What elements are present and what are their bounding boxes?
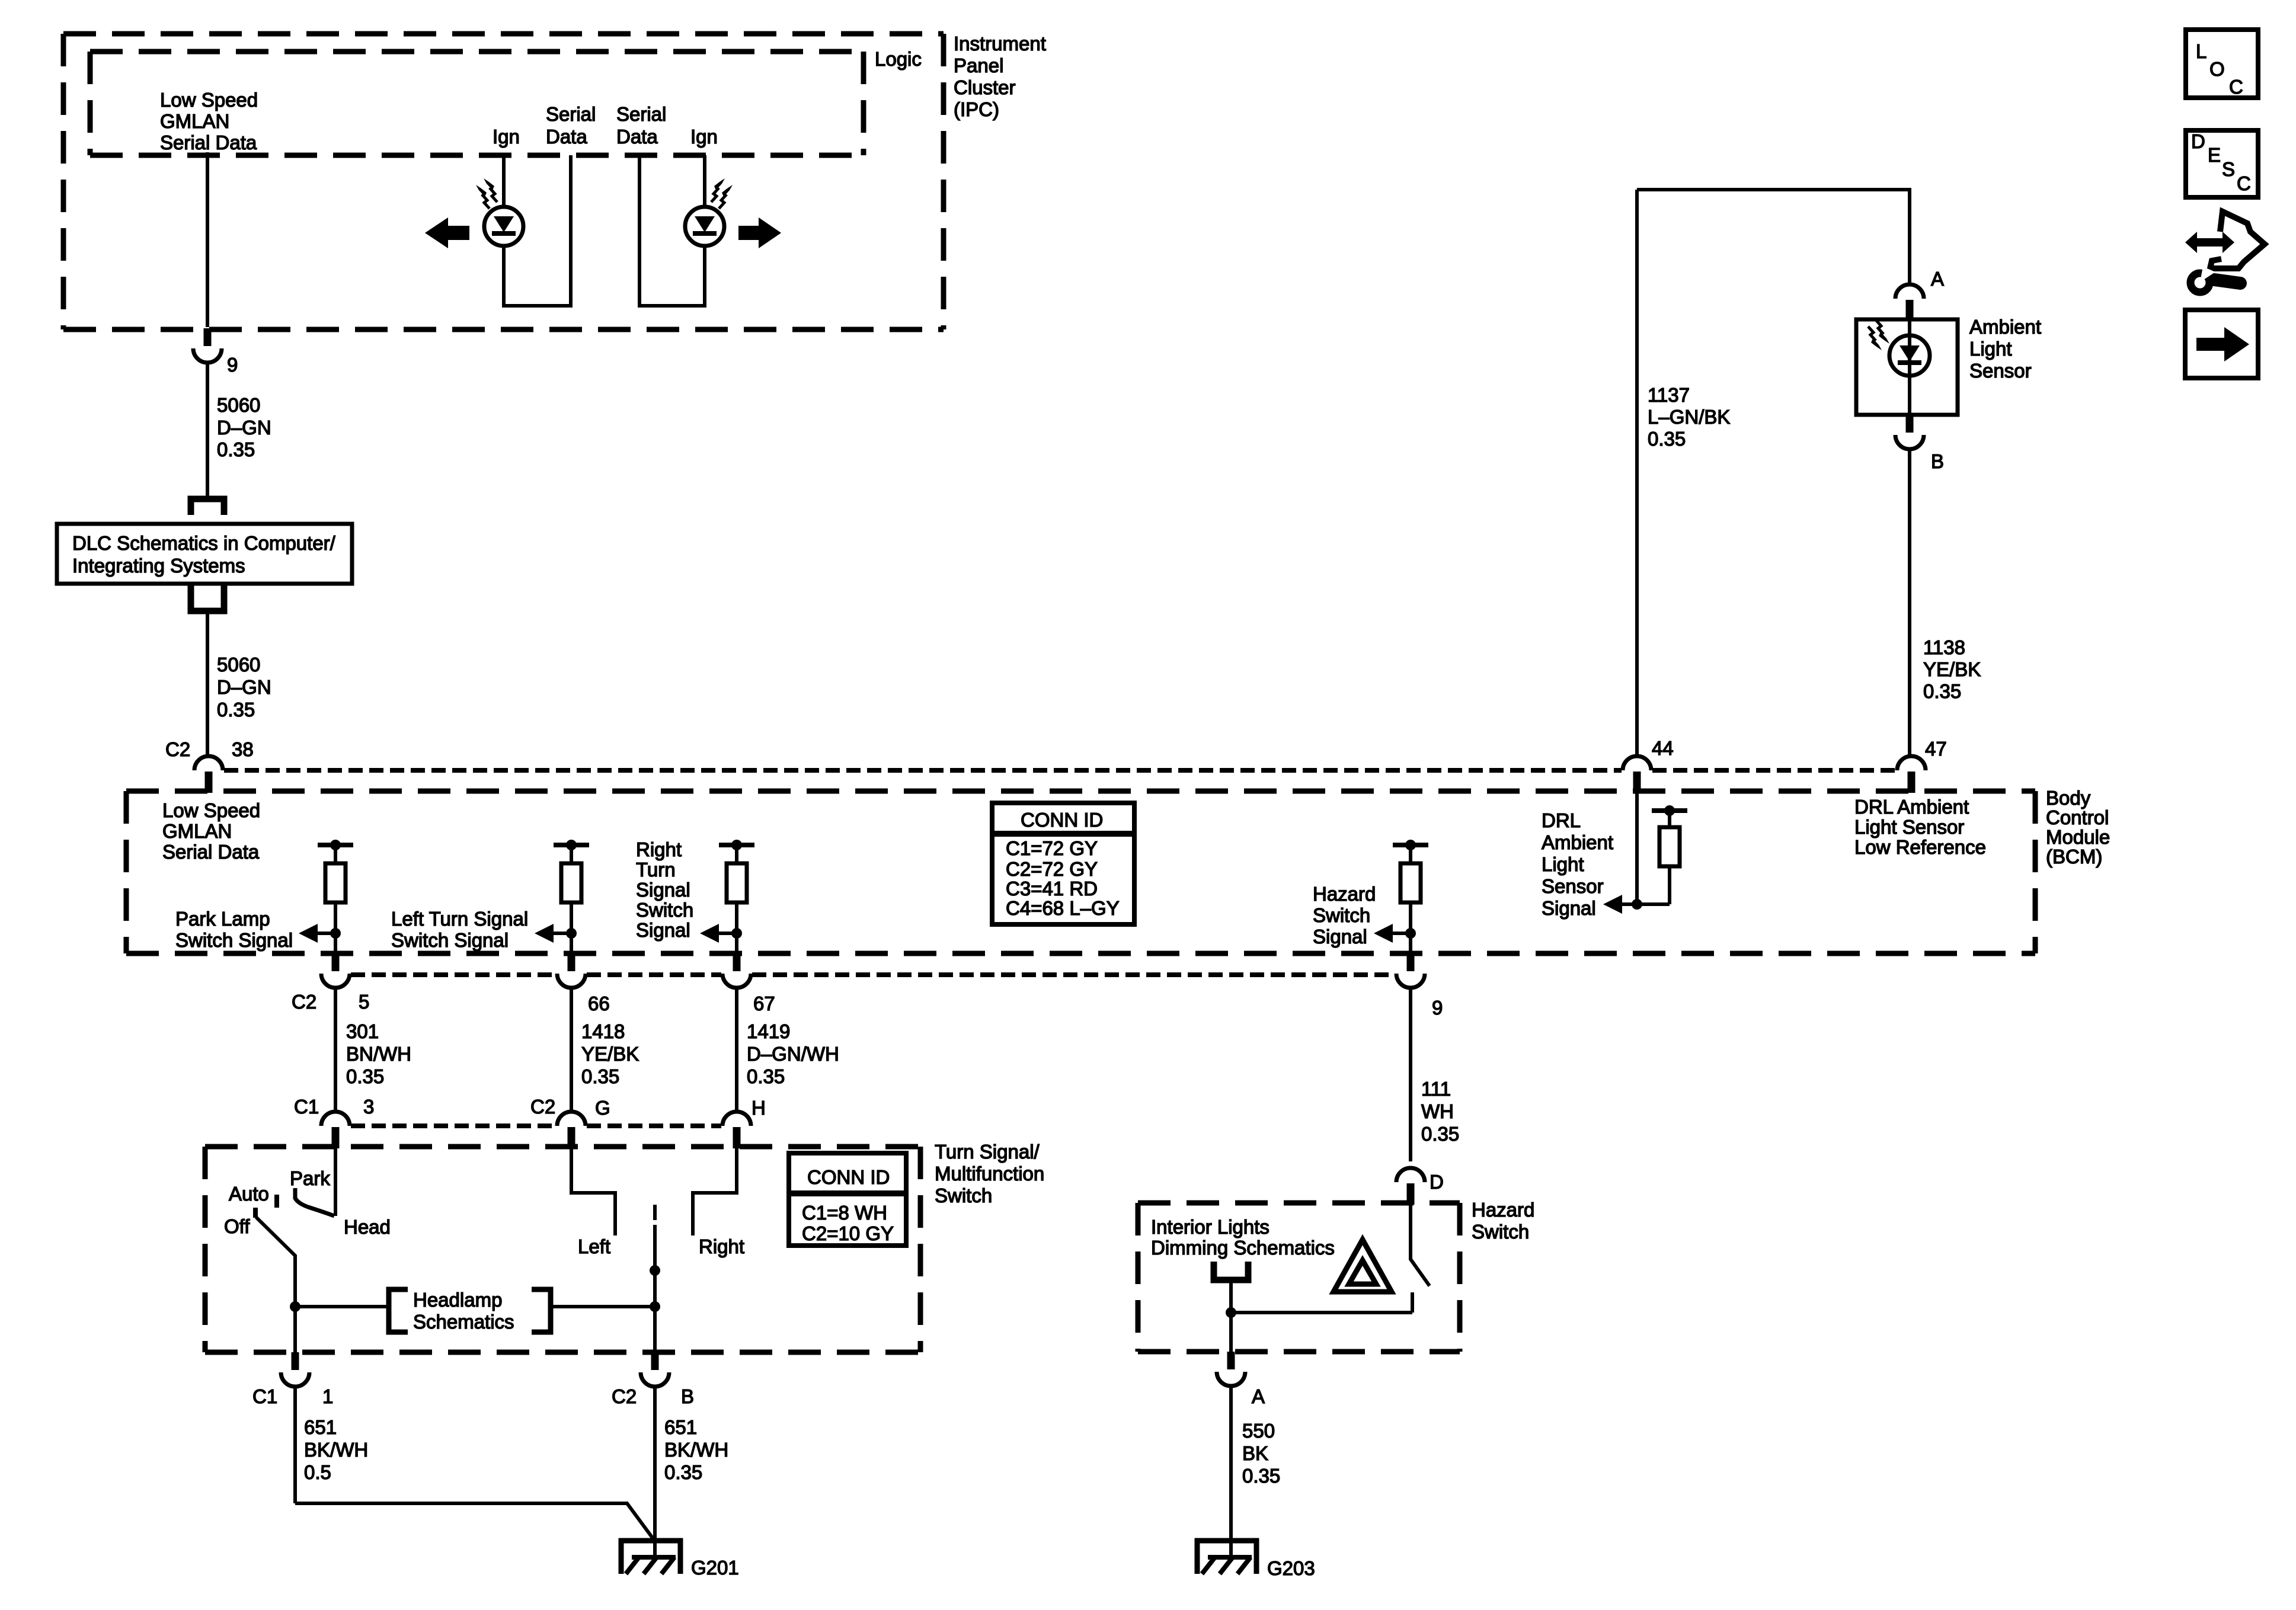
icon DESC box	[2186, 130, 2258, 197]
svg-text:3: 3	[363, 1096, 374, 1118]
svg-text:0.35: 0.35	[1421, 1123, 1459, 1145]
logic box	[90, 52, 864, 155]
svg-text:Cluster: Cluster	[954, 76, 1016, 98]
svg-text:0.35: 0.35	[1923, 680, 1961, 702]
svg-text:Light: Light	[1542, 853, 1584, 875]
svg-text:Control: Control	[2046, 806, 2109, 828]
dotted connector line BCM bottom row	[351, 972, 556, 977]
svg-text:C2: C2	[612, 1385, 637, 1407]
LED ambient light sensor	[1868, 320, 1930, 376]
svg-text:Auto: Auto	[229, 1183, 269, 1205]
svg-text:Signal: Signal	[1542, 897, 1596, 919]
svg-text:Low Speed: Low Speed	[160, 89, 258, 111]
wire: right Ign drop in IPC	[703, 155, 706, 207]
connector 66 exit at BCM bottom	[557, 953, 586, 1112]
svg-text:B: B	[1931, 450, 1944, 472]
dotted connector line BCM top row right part	[1652, 768, 1896, 773]
svg-text:Low Reference: Low Reference	[1854, 836, 1986, 858]
connector C1 1 exit at switch box bottom	[281, 1352, 309, 1503]
svg-text:1418: 1418	[581, 1020, 625, 1042]
svg-text:BN/WH: BN/WH	[346, 1043, 411, 1065]
svg-text:D–GN: D–GN	[217, 417, 271, 438]
svg-text:Switch: Switch	[636, 899, 693, 921]
svg-text:0.35: 0.35	[346, 1065, 384, 1087]
ambient light sensor box	[1856, 319, 1958, 415]
svg-text:Multifunction: Multifunction	[935, 1163, 1044, 1185]
svg-text:Ambient: Ambient	[1969, 316, 2041, 338]
svg-text:Body: Body	[2046, 787, 2091, 809]
svg-text:Sensor: Sensor	[1969, 360, 2032, 382]
BCM internal: park lamp resistor column	[299, 840, 353, 953]
turn switch: left feed jog from C2 G	[571, 1148, 615, 1235]
svg-text:C2: C2	[530, 1096, 555, 1118]
connector 44 entry at BCM top	[1623, 756, 1651, 793]
svg-text:C1: C1	[252, 1385, 277, 1407]
icon forward arrow box	[2185, 310, 2258, 378]
svg-text:9: 9	[1432, 997, 1443, 1019]
svg-text:C3=41 RD: C3=41 RD	[1006, 878, 1098, 900]
svg-text:YE/BK: YE/BK	[581, 1043, 639, 1065]
wire: left Ign drop in IPC	[502, 155, 506, 207]
svg-text:Dimming Schematics: Dimming Schematics	[1151, 1237, 1335, 1259]
svg-text:Left Turn Signal: Left Turn Signal	[391, 908, 528, 930]
wire: pin 44 internal drop	[1635, 793, 1639, 904]
svg-text:S: S	[2222, 158, 2235, 180]
connector 9 exit at BCM bottom	[1396, 953, 1425, 1161]
svg-text:DLC Schematics in Computer/: DLC Schematics in Computer/	[72, 532, 336, 554]
svg-text:0.35: 0.35	[1648, 428, 1686, 450]
svg-text:E: E	[2208, 144, 2221, 166]
svg-text:Switch Signal: Switch Signal	[175, 929, 293, 951]
svg-text:GMLAN: GMLAN	[160, 110, 229, 132]
svg-text:BK/WH: BK/WH	[304, 1439, 368, 1461]
svg-text:Switch Signal: Switch Signal	[391, 929, 509, 951]
hazard warning triangle outer	[1334, 1240, 1392, 1292]
svg-text:Sensor: Sensor	[1542, 875, 1604, 897]
svg-text:0.35: 0.35	[217, 438, 255, 460]
svg-text:Signal: Signal	[636, 919, 690, 941]
svg-text:G201: G201	[691, 1557, 739, 1579]
interior lights dimming staple	[1214, 1262, 1248, 1280]
svg-text:(IPC): (IPC)	[954, 98, 999, 120]
svg-text:Turn: Turn	[636, 859, 676, 881]
connector A entry at sensor box top	[1895, 284, 1924, 321]
svg-text:C2=10 GY: C2=10 GY	[802, 1222, 894, 1244]
wire: low speed GMLAN serial data inside IPC	[206, 152, 209, 327]
svg-text:550: 550	[1242, 1420, 1275, 1442]
wire through ambient light sensor	[1908, 321, 1911, 415]
svg-text:9: 9	[227, 354, 238, 376]
svg-text:Serial: Serial	[546, 103, 596, 125]
svg-text:301: 301	[346, 1020, 379, 1042]
junction dot on common wire	[650, 1265, 660, 1276]
svg-text:Instrument: Instrument	[954, 33, 1046, 55]
wire: 111 WH hazard drop handled above; connector D entry at hazard box top	[1396, 1168, 1425, 1205]
svg-text:C1: C1	[294, 1096, 319, 1118]
wire: 651 BK/WH run to ground	[295, 1503, 654, 1539]
svg-text:Data: Data	[616, 126, 658, 148]
svg-text:C1=8 WH: C1=8 WH	[802, 1202, 887, 1224]
svg-text:Data: Data	[546, 126, 587, 148]
svg-text:Serial Data: Serial Data	[160, 132, 257, 153]
svg-text:38: 38	[232, 738, 254, 760]
headlamp switch: auto contact tick	[274, 1195, 279, 1208]
svg-text:WH: WH	[1421, 1100, 1454, 1122]
svg-text:Ign: Ign	[493, 126, 520, 148]
svg-text:Panel: Panel	[954, 55, 1003, 76]
svg-text:CONN ID: CONN ID	[1021, 809, 1103, 831]
svg-text:B: B	[681, 1385, 694, 1407]
BCM internal: hazard switch signal resistor column	[1374, 840, 1428, 953]
svg-text:1: 1	[322, 1385, 333, 1407]
svg-text:C2: C2	[165, 738, 190, 760]
svg-text:Headlamp: Headlamp	[413, 1289, 502, 1311]
svg-text:5060: 5060	[217, 654, 260, 676]
wire: headlamp schematics horizontal left	[295, 1305, 387, 1308]
svg-text:H: H	[752, 1097, 766, 1119]
svg-text:Module: Module	[2046, 826, 2110, 848]
wire: ambient light sensor feed top horizontal	[1637, 190, 1910, 284]
connector C1 3 entry at switch box top	[321, 1112, 350, 1148]
ground G201	[619, 1538, 683, 1574]
connector C2 5 exit at BCM bottom	[321, 953, 350, 1112]
svg-text:(BCM): (BCM)	[2046, 846, 2102, 868]
headlamp switch: blade from off	[256, 1217, 295, 1352]
svg-text:Light: Light	[1969, 338, 2012, 360]
svg-text:0.5: 0.5	[304, 1461, 331, 1483]
svg-text:Park Lamp: Park Lamp	[175, 908, 270, 930]
connector C2 B exit at switch box bottom	[641, 1352, 669, 1541]
svg-text:Ambient: Ambient	[1542, 831, 1613, 853]
svg-text:Right: Right	[699, 1235, 744, 1257]
svg-text:Serial: Serial	[616, 103, 666, 125]
svg-text:651: 651	[304, 1416, 337, 1438]
svg-text:651: 651	[664, 1416, 697, 1438]
svg-text:DRL Ambient: DRL Ambient	[1854, 796, 1969, 818]
svg-text:5060: 5060	[217, 394, 260, 416]
svg-text:Ign: Ign	[690, 126, 718, 148]
svg-text:BK: BK	[1242, 1442, 1268, 1464]
DLC schematics box	[57, 524, 352, 584]
icon wrench and arrows	[2185, 212, 2265, 292]
svg-text:L: L	[2196, 40, 2207, 62]
svg-text:CONN ID: CONN ID	[807, 1166, 890, 1188]
svg-text:C: C	[2237, 172, 2251, 194]
svg-text:A: A	[1931, 268, 1944, 290]
LED turn indicator left in IPC	[476, 178, 523, 246]
connector B exit at sensor box bottom	[1895, 416, 1924, 449]
junction dot interior lights	[1226, 1307, 1236, 1318]
svg-text:Hazard: Hazard	[1313, 883, 1376, 905]
turn switch: common wire down	[653, 1225, 657, 1352]
headlamp switch: wire from C1 3 to Head contact	[334, 1148, 337, 1216]
off-page staple above DLC box	[191, 499, 224, 515]
svg-text:Left: Left	[578, 1235, 610, 1257]
hazard warning triangle inner	[1349, 1260, 1376, 1284]
connector 67 exit at BCM bottom	[722, 953, 751, 1112]
connector 47 entry at BCM top	[1897, 756, 1926, 793]
connector C2 G entry at switch box top	[557, 1112, 586, 1148]
conn id box BCM	[992, 803, 1134, 924]
headlamp switch: park contact and wiper arc	[295, 1188, 334, 1216]
connector A exit at hazard box bottom	[1217, 1352, 1245, 1541]
bracket right of headlamp schematics	[532, 1289, 551, 1332]
BCM box	[126, 791, 2035, 953]
svg-text:G203: G203	[1267, 1557, 1315, 1579]
connector 9 exit at IPC bottom	[193, 328, 222, 499]
wire: left LED to serial data U loop	[504, 155, 571, 306]
svg-text:Schematics: Schematics	[413, 1311, 514, 1333]
svg-text:Light Sensor: Light Sensor	[1854, 816, 1964, 838]
svg-text:0.35: 0.35	[581, 1065, 619, 1087]
icon LOC box top right	[2186, 30, 2258, 98]
BCM internal: right turn resistor column	[700, 840, 754, 953]
svg-text:BK/WH: BK/WH	[664, 1439, 728, 1461]
bracket left of headlamp schematics	[389, 1289, 408, 1332]
svg-text:Head: Head	[344, 1216, 391, 1238]
svg-text:44: 44	[1652, 737, 1674, 759]
svg-text:5: 5	[359, 991, 369, 1013]
svg-text:L–GN/BK: L–GN/BK	[1648, 406, 1730, 428]
connector H entry at switch box top	[722, 1112, 751, 1148]
hazard switch: internal horizontal wire	[1231, 1311, 1412, 1314]
svg-text:Turn Signal/: Turn Signal/	[935, 1141, 1040, 1163]
svg-text:C2=72 GY: C2=72 GY	[1006, 858, 1098, 880]
svg-text:0.35: 0.35	[217, 699, 255, 721]
svg-text:C: C	[2229, 76, 2243, 98]
svg-text:Low Speed: Low Speed	[162, 799, 260, 821]
ground G203	[1195, 1538, 1259, 1574]
wire: dimming feed down	[1229, 1280, 1233, 1352]
svg-text:C1=72 GY: C1=72 GY	[1006, 837, 1098, 859]
hazard switch: lower contact	[1411, 1292, 1414, 1313]
conn id box switch	[789, 1153, 906, 1246]
svg-text:0.35: 0.35	[664, 1461, 702, 1483]
turn switch: right feed jog from H	[693, 1148, 737, 1235]
svg-text:A: A	[1252, 1385, 1265, 1407]
instrument panel cluster IPC box	[63, 34, 944, 329]
junction: headlamp takeoff	[290, 1301, 300, 1312]
svg-text:O: O	[2209, 58, 2225, 80]
svg-text:D: D	[1430, 1171, 1444, 1193]
svg-text:1419: 1419	[747, 1020, 790, 1042]
svg-text:Logic: Logic	[875, 48, 922, 70]
junction dot at headlamp line	[650, 1301, 660, 1312]
svg-text:Integrating Systems: Integrating Systems	[72, 555, 245, 577]
turn switch: common pole stub	[653, 1205, 657, 1220]
svg-text:Hazard: Hazard	[1472, 1199, 1534, 1221]
svg-text:DRL: DRL	[1542, 809, 1581, 831]
turn signal / multifunction switch box	[205, 1147, 920, 1352]
svg-text:Switch: Switch	[1472, 1221, 1529, 1243]
wire 1137 L-GN/BK vertical	[1635, 190, 1639, 756]
svg-text:Off: Off	[224, 1215, 250, 1237]
svg-text:0.35: 0.35	[747, 1065, 785, 1087]
LED turn indicator right in IPC	[685, 178, 733, 246]
svg-text:66: 66	[588, 993, 610, 1014]
svg-text:Interior Lights: Interior Lights	[1151, 1216, 1269, 1238]
svg-text:1138: 1138	[1923, 636, 1965, 658]
svg-text:Signal: Signal	[1313, 926, 1367, 948]
svg-text:0.35: 0.35	[1242, 1465, 1280, 1487]
BCM internal: DRL ambient light sensor resistor	[1603, 805, 1687, 914]
arrow right turn direction	[738, 217, 781, 248]
svg-text:C4=68 L–GY: C4=68 L–GY	[1006, 897, 1120, 919]
svg-text:D–GN: D–GN	[217, 676, 271, 698]
wire: 1138 YE/BK to pin 47	[1908, 449, 1911, 756]
connector C2 38 entry at BCM top	[194, 756, 223, 793]
svg-text:Switch: Switch	[935, 1185, 992, 1206]
svg-text:YE/BK: YE/BK	[1923, 658, 1981, 680]
dotted connector line BCM top row	[224, 768, 1622, 773]
svg-text:67: 67	[753, 993, 775, 1014]
svg-text:D: D	[2191, 130, 2205, 152]
wire: right serial data U loop	[639, 155, 705, 306]
dotted connector line switch box top row	[351, 1124, 556, 1128]
hazard switch: blade	[1411, 1205, 1430, 1286]
svg-text:47: 47	[1925, 738, 1947, 760]
svg-text:G: G	[595, 1097, 610, 1119]
hazard switch box	[1138, 1203, 1460, 1352]
svg-text:Signal: Signal	[636, 879, 690, 901]
headlamp switch: off contact tick	[253, 1208, 258, 1218]
svg-text:111: 111	[1421, 1078, 1451, 1100]
arrow left turn direction	[425, 217, 469, 248]
svg-text:GMLAN: GMLAN	[162, 820, 232, 842]
svg-text:D–GN/WH: D–GN/WH	[747, 1043, 839, 1065]
svg-text:Right: Right	[636, 838, 682, 860]
svg-text:C2: C2	[292, 991, 316, 1013]
svg-text:Serial Data: Serial Data	[162, 841, 260, 863]
svg-text:Switch: Switch	[1313, 904, 1370, 926]
wire: 5060 D-GN below DLC	[206, 611, 209, 756]
svg-text:Park: Park	[290, 1167, 330, 1189]
off-page staple below DLC box	[191, 585, 224, 611]
wire: headlamp schematics horizontal right	[551, 1305, 655, 1308]
BCM internal: left turn resistor column	[535, 840, 589, 953]
svg-text:1137: 1137	[1648, 384, 1690, 406]
